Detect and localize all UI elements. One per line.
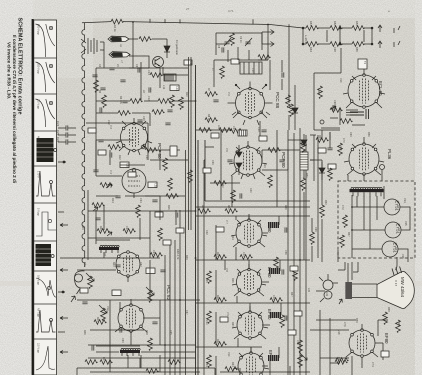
svg-text:R57: R57 xyxy=(347,232,350,237)
svg-text:R48 2,7k: R48 2,7k xyxy=(176,249,180,260)
sync extra parts xyxy=(106,145,177,190)
C25 trimmer xyxy=(58,132,76,137)
svg-text:R55: R55 xyxy=(318,135,321,140)
label box L13 xyxy=(170,85,179,91)
line stage wires xyxy=(310,130,382,280)
svg-text:R60: R60 xyxy=(337,357,340,362)
svg-text:L16: L16 xyxy=(126,164,130,169)
tuner extra resistors xyxy=(102,95,175,114)
mixer grid parts xyxy=(150,73,188,78)
shield ground arrow xyxy=(71,296,76,302)
svg-text:R45: R45 xyxy=(96,317,99,322)
svg-text:C31: C31 xyxy=(232,126,235,131)
right mid resistors xyxy=(301,178,325,245)
label box L10 xyxy=(184,60,192,66)
svg-text:C71: C71 xyxy=(228,9,234,13)
flyback vertical drops xyxy=(357,196,377,249)
page crease line xyxy=(413,55,415,335)
sound det label boxes xyxy=(155,59,336,335)
IF strip resistors xyxy=(198,209,302,368)
svg-text:C66: C66 xyxy=(314,227,317,232)
sync ground arrows xyxy=(93,207,112,236)
svg-text:L.38.1: L.38.1 xyxy=(304,35,308,44)
svg-text:R21: R21 xyxy=(201,205,204,210)
svg-text:V10: V10 xyxy=(227,352,230,357)
svg-text:R10: R10 xyxy=(185,92,188,97)
svg-text:C67: C67 xyxy=(185,310,188,315)
svg-text:R63: R63 xyxy=(355,21,359,26)
tube pin stubs V6 xyxy=(229,147,267,179)
svg-text:L21: L21 xyxy=(217,125,220,130)
svg-text:PL36: PL36 xyxy=(387,149,392,160)
svg-text:R56: R56 xyxy=(367,132,370,137)
waveform trace box6 xyxy=(36,212,56,236)
sound output tube ECL80 xyxy=(346,68,382,108)
svg-text:C34: C34 xyxy=(139,198,142,203)
frame section caps xyxy=(82,218,165,351)
mid-left wires xyxy=(96,101,196,126)
svg-text:27: 27 xyxy=(186,7,190,11)
svg-text:R48: R48 xyxy=(145,330,148,335)
tube pin stubs V3 xyxy=(116,121,152,155)
svg-text:C63: C63 xyxy=(121,338,124,343)
svg-text:R12: R12 xyxy=(118,155,121,160)
svg-text:R19: R19 xyxy=(263,163,266,168)
right mid wires xyxy=(288,140,322,262)
svg-text:R41: R41 xyxy=(83,262,86,267)
svg-text:V13: V13 xyxy=(339,146,342,151)
waveform trace box1 xyxy=(36,24,55,57)
svg-text:L31: L31 xyxy=(325,292,328,297)
deflection yoke xyxy=(346,282,353,299)
svg-text:V18: V18 xyxy=(337,330,340,335)
sound section extra xyxy=(320,105,365,128)
IF tube V9 EF80 xyxy=(234,306,266,339)
svg-text:C30: C30 xyxy=(145,155,148,160)
resistor R6 xyxy=(258,55,271,60)
labels V14 V15 V16 xyxy=(401,198,408,259)
channel strip coil L2 xyxy=(109,52,130,58)
svg-text:V6 invece che a R38 - L30.: V6 invece che a R38 - L30. xyxy=(7,42,12,99)
antenna balun xyxy=(81,38,104,54)
svg-text:PCF 80: PCF 80 xyxy=(157,143,162,159)
svg-text:V14: V14 xyxy=(403,198,407,203)
svg-text:C74: C74 xyxy=(371,362,374,367)
svg-text:C60: C60 xyxy=(125,226,128,231)
scattered value labels 2 xyxy=(81,64,400,367)
video amp caps xyxy=(213,100,286,321)
svg-text:R8 1k: R8 1k xyxy=(207,114,210,121)
top cap small circle xyxy=(380,165,385,170)
label box L16 xyxy=(120,162,130,168)
svg-text:C69: C69 xyxy=(349,132,352,137)
svg-text:R61: R61 xyxy=(309,21,313,26)
svg-text:R32: R32 xyxy=(216,339,219,344)
svg-text:R20: R20 xyxy=(221,183,224,188)
transistor TR1 xyxy=(153,57,164,68)
waveform trace box3 xyxy=(36,99,55,127)
IF coil hatch xyxy=(164,74,176,81)
sound IF transformer xyxy=(238,130,247,136)
resistor R1 on rail xyxy=(111,19,124,24)
tuner interstage wires xyxy=(86,36,188,176)
bottom-left horizontal wires xyxy=(60,211,200,345)
resistor C33 xyxy=(289,104,294,117)
svg-text:C14: C14 xyxy=(147,70,150,75)
svg-text:C26: C26 xyxy=(56,137,60,143)
svg-text:R22: R22 xyxy=(227,205,230,210)
waveform column thick left border xyxy=(32,19,34,375)
frame osc tube PCL82 triode xyxy=(116,251,140,282)
svg-text:V16: V16 xyxy=(401,254,405,259)
EHT lead to anode xyxy=(396,257,398,270)
svg-text:MW 43/64: MW 43/64 xyxy=(400,277,405,298)
svg-text:NY7 pp: NY7 pp xyxy=(37,308,41,317)
svg-text:C9 10: C9 10 xyxy=(239,36,242,43)
svg-text:R58: R58 xyxy=(387,307,390,312)
svg-text:R14: R14 xyxy=(111,198,114,203)
svg-text:V 4: V 4 xyxy=(109,170,112,174)
bottom box frame xyxy=(77,346,215,375)
ladder labels xyxy=(309,21,359,52)
resistor R2 xyxy=(139,37,152,42)
svg-text:R62: R62 xyxy=(333,21,337,26)
svg-text:V 7: V 7 xyxy=(225,220,228,224)
svg-text:R53: R53 xyxy=(317,90,320,95)
top HT rail xyxy=(82,22,303,28)
video output tube bottom right xyxy=(346,324,378,357)
svg-text:R1 1k: R1 1k xyxy=(113,25,117,32)
line output tube PL36 xyxy=(347,137,381,175)
vertical bus group bottom-left xyxy=(165,150,186,375)
line stage resistors xyxy=(301,140,348,248)
svg-text:V15: V15 xyxy=(404,221,408,226)
video amp resistors xyxy=(199,66,290,203)
flyback winding xyxy=(350,187,384,196)
tube V3 PCF80 (tuner) xyxy=(119,118,149,152)
top-left corner light patch xyxy=(33,18,93,78)
right white margin xyxy=(415,0,422,375)
svg-text:R37: R37 xyxy=(290,292,293,297)
CRT label xyxy=(394,277,405,298)
PCC88 top cap network xyxy=(216,33,262,62)
wire to detector bus xyxy=(288,24,290,130)
bottom right wiring xyxy=(310,310,388,375)
tuner extra caps xyxy=(92,67,172,112)
svg-text:250 V pp: 250 V pp xyxy=(37,63,41,74)
frame output PCL82 pentode xyxy=(115,299,147,332)
ratio detector diodes xyxy=(236,145,242,175)
waveform trace box10 xyxy=(36,346,55,370)
frame section extra wires xyxy=(77,190,196,368)
svg-text:C59: C59 xyxy=(81,225,84,230)
scanner gray band xyxy=(0,281,422,286)
wire L1 to R2 xyxy=(129,38,167,40)
bottom right resistors xyxy=(298,312,401,368)
svg-text:V 3: V 3 xyxy=(109,125,112,129)
svg-text:V11: V11 xyxy=(103,252,106,257)
svg-text:40 V pp: 40 V pp xyxy=(37,136,41,145)
svg-text:R34: R34 xyxy=(231,362,234,367)
sync label boxes xyxy=(88,128,171,245)
svg-text:R26: R26 xyxy=(231,278,234,283)
detector coil xyxy=(300,152,308,170)
scattered value labels xyxy=(96,36,390,362)
test point arrows top xyxy=(262,30,274,47)
IF tube V8 EF80 xyxy=(234,264,264,296)
IF trap box xyxy=(240,62,262,74)
waveform trace box5 xyxy=(36,171,56,196)
waveform trace box8 xyxy=(36,278,56,297)
frame section resistors xyxy=(88,203,163,365)
PCC88 box extras xyxy=(216,33,238,60)
svg-text:C45: C45 xyxy=(205,278,208,283)
wire ladder to PCC88 xyxy=(258,25,268,61)
left white margin xyxy=(0,0,33,375)
sync area resistors xyxy=(100,145,162,241)
C24-C26 labels xyxy=(56,121,60,143)
sync area caps xyxy=(93,140,177,218)
video amp wires xyxy=(196,60,300,207)
svg-text:R64: R64 xyxy=(309,47,313,52)
svg-text:C25: C25 xyxy=(56,130,60,136)
blocking osc transformer xyxy=(120,348,140,356)
svg-text:1N germanio: 1N germanio xyxy=(175,40,179,55)
svg-text:C10: C10 xyxy=(251,68,254,73)
svg-text:R43: R43 xyxy=(112,262,115,267)
label box above ECL80 xyxy=(358,59,367,69)
IF coil T5 xyxy=(270,312,281,318)
svg-text:R36: R36 xyxy=(284,205,287,210)
svg-text:C28: C28 xyxy=(142,116,145,121)
IF coil T6 xyxy=(268,355,279,361)
svg-text:R59: R59 xyxy=(355,318,358,323)
svg-text:C48: C48 xyxy=(272,295,275,300)
pot arrows xyxy=(86,273,307,360)
rectifier EY51 b xyxy=(385,222,401,238)
svg-text:C40: C40 xyxy=(249,188,252,193)
svg-text:18 V pp: 18 V pp xyxy=(37,245,41,254)
svg-text:C62: C62 xyxy=(139,262,142,267)
shield end coil L7 xyxy=(75,271,85,294)
svg-text:C76: C76 xyxy=(343,322,346,327)
focus magnet xyxy=(319,274,338,302)
waveform box separators xyxy=(34,58,57,339)
svg-text:R50: R50 xyxy=(305,173,308,178)
tube pin stubs PL36 ECL80 xyxy=(343,76,385,162)
svg-text:R40: R40 xyxy=(99,226,102,231)
svg-text:R46: R46 xyxy=(83,330,86,335)
EHT cage dashed box xyxy=(338,181,415,258)
bottom strip resistors xyxy=(85,360,238,374)
width coil xyxy=(99,245,119,253)
svg-text:C39: C39 xyxy=(211,160,214,165)
bottom strip wires xyxy=(90,352,310,375)
strip labels xyxy=(119,44,123,63)
waveform labels xyxy=(37,24,41,353)
label box L18 xyxy=(148,182,158,188)
EHT wiring xyxy=(352,186,410,262)
svg-text:5 V pp: 5 V pp xyxy=(37,208,41,216)
svg-text:C68: C68 xyxy=(333,100,336,105)
IF tube V10 EF80 xyxy=(238,347,264,375)
scattered junction dots xyxy=(132,21,353,346)
svg-text:V13: V13 xyxy=(339,78,342,83)
left strip connector wires xyxy=(58,161,66,332)
label box V18 xyxy=(336,351,389,362)
vertical bus right of IF strip xyxy=(288,128,306,375)
svg-text:C90: C90 xyxy=(333,47,337,52)
tube V4 triode xyxy=(122,169,146,198)
svg-text:R3 47k: R3 47k xyxy=(119,96,122,105)
svg-text:R66: R66 xyxy=(397,322,400,327)
waveform trace box2 xyxy=(36,62,55,92)
svg-text:C50: C50 xyxy=(205,320,208,325)
wire rail to tuner xyxy=(132,22,134,36)
svg-text:R49: R49 xyxy=(185,255,188,260)
C24 trimmer xyxy=(58,125,76,130)
svg-text:0,9 V pp: 0,9 V pp xyxy=(37,275,41,285)
svg-text:3,5 V pp: 3,5 V pp xyxy=(37,99,41,109)
svg-text:EY51: EY51 xyxy=(393,243,398,254)
sync resistors xyxy=(145,148,192,199)
grid resistors left of V2 xyxy=(205,92,243,134)
svg-text:C12: C12 xyxy=(147,96,150,101)
svg-text:V12: V12 xyxy=(106,306,109,311)
svg-text:C54: C54 xyxy=(205,362,208,367)
svg-text:C41: C41 xyxy=(242,252,245,257)
svg-text:V 6: V 6 xyxy=(225,148,228,152)
svg-text:C58: C58 xyxy=(296,340,299,345)
svg-text:C56: C56 xyxy=(284,250,287,255)
svg-text:EF80: EF80 xyxy=(384,333,389,344)
boost diode cluster xyxy=(319,162,325,180)
speaker xyxy=(366,109,369,119)
svg-text:800 V pp: 800 V pp xyxy=(37,24,41,35)
svg-text:V 8: V 8 xyxy=(225,268,228,272)
svg-text:L30: L30 xyxy=(307,288,310,293)
mid-left resistor rows xyxy=(94,80,184,115)
svg-text:2,5 V pp: 2,5 V pp xyxy=(37,343,41,353)
top rail stubs xyxy=(150,19,253,24)
diode OA70 xyxy=(164,39,170,58)
sound output transformer xyxy=(346,110,358,115)
top right resistor ladder xyxy=(302,26,373,47)
tube V2 PCC88 xyxy=(228,82,273,119)
svg-text:V 9: V 9 xyxy=(226,312,229,316)
svg-text:C42: C42 xyxy=(205,230,208,235)
waveform trace box9 xyxy=(36,310,56,332)
svg-text:C72: C72 xyxy=(341,205,344,210)
svg-text:V 17: V 17 xyxy=(394,280,398,287)
svg-text:C65: C65 xyxy=(169,330,172,335)
waveform column frame xyxy=(34,20,57,375)
top margin marks xyxy=(186,7,390,13)
AGC line xyxy=(204,160,205,375)
svg-text:R16: R16 xyxy=(167,205,170,210)
IF stage wires xyxy=(216,216,281,375)
C26 trimmer xyxy=(58,139,76,144)
tube pin stubs V2 xyxy=(232,84,270,125)
sound box parts xyxy=(318,86,364,115)
top white margin xyxy=(33,0,422,18)
svg-text:170 V: 170 V xyxy=(37,171,41,178)
ion trap leads xyxy=(316,263,348,304)
sync wires xyxy=(96,140,176,240)
svg-text:R65: R65 xyxy=(355,47,359,52)
box edge sound section xyxy=(196,140,310,207)
svg-text:R30: R30 xyxy=(231,322,234,327)
PL36 left components xyxy=(310,132,342,156)
svg-text:EY51: EY51 xyxy=(396,224,401,235)
IF coil T4 xyxy=(269,268,280,274)
svg-text:EY51: EY51 xyxy=(395,201,400,212)
svg-text:R25: R25 xyxy=(216,252,219,257)
svg-text:L12: L12 xyxy=(162,85,165,90)
rectifier EY51 a xyxy=(384,199,400,215)
wire ladder down xyxy=(340,48,342,73)
svg-text:R52: R52 xyxy=(324,200,327,205)
IF coil T3 xyxy=(268,222,279,228)
mains plugs xyxy=(378,25,400,48)
tube V6 PCF80 (sound) xyxy=(231,141,265,176)
frame section label boxes xyxy=(80,268,155,296)
IF strip section lines xyxy=(196,216,310,347)
main vertical bus x195 xyxy=(196,65,199,375)
tuner shield scalloped line xyxy=(82,23,85,267)
wire tuner outputs xyxy=(129,56,175,75)
svg-text:L18: L18 xyxy=(154,184,158,189)
sound section box xyxy=(314,73,341,130)
screened lead double line xyxy=(189,57,192,230)
svg-text:L10: L10 xyxy=(189,61,192,66)
IF tube V7 EF80 xyxy=(233,214,265,247)
video det diode 2 xyxy=(282,60,298,130)
svg-text:R24: R24 xyxy=(231,235,234,240)
svg-text:R28: R28 xyxy=(216,295,219,300)
svg-text:V 2: V 2 xyxy=(227,92,230,96)
svg-text:C64: C64 xyxy=(152,250,155,255)
channel strip coil L1 xyxy=(108,36,129,42)
svg-text:Il condensatore C73 di 4,7 pF: Il condensatore C73 di 4,7 pF deve riten… xyxy=(12,35,17,183)
svg-text:C24: C24 xyxy=(56,121,60,127)
rectifier EY51 c xyxy=(382,241,398,257)
svg-text:PCC 88: PCC 88 xyxy=(275,92,280,109)
svg-text:PCL 82: PCL 82 xyxy=(166,285,171,301)
svg-text:L13: L13 xyxy=(175,87,179,92)
video det diode xyxy=(301,134,307,145)
svg-text:C70: C70 xyxy=(342,138,345,143)
waveform video bars box4 xyxy=(37,138,57,162)
left arrows to test points xyxy=(60,224,68,354)
tube pin stubs IF tubes xyxy=(231,220,269,369)
sync area wires xyxy=(145,150,185,258)
svg-text:C38: C38 xyxy=(257,127,260,132)
CRT V17 xyxy=(352,267,414,309)
tuner stage caps xyxy=(100,68,170,125)
waveform video bars box7 xyxy=(36,244,55,266)
